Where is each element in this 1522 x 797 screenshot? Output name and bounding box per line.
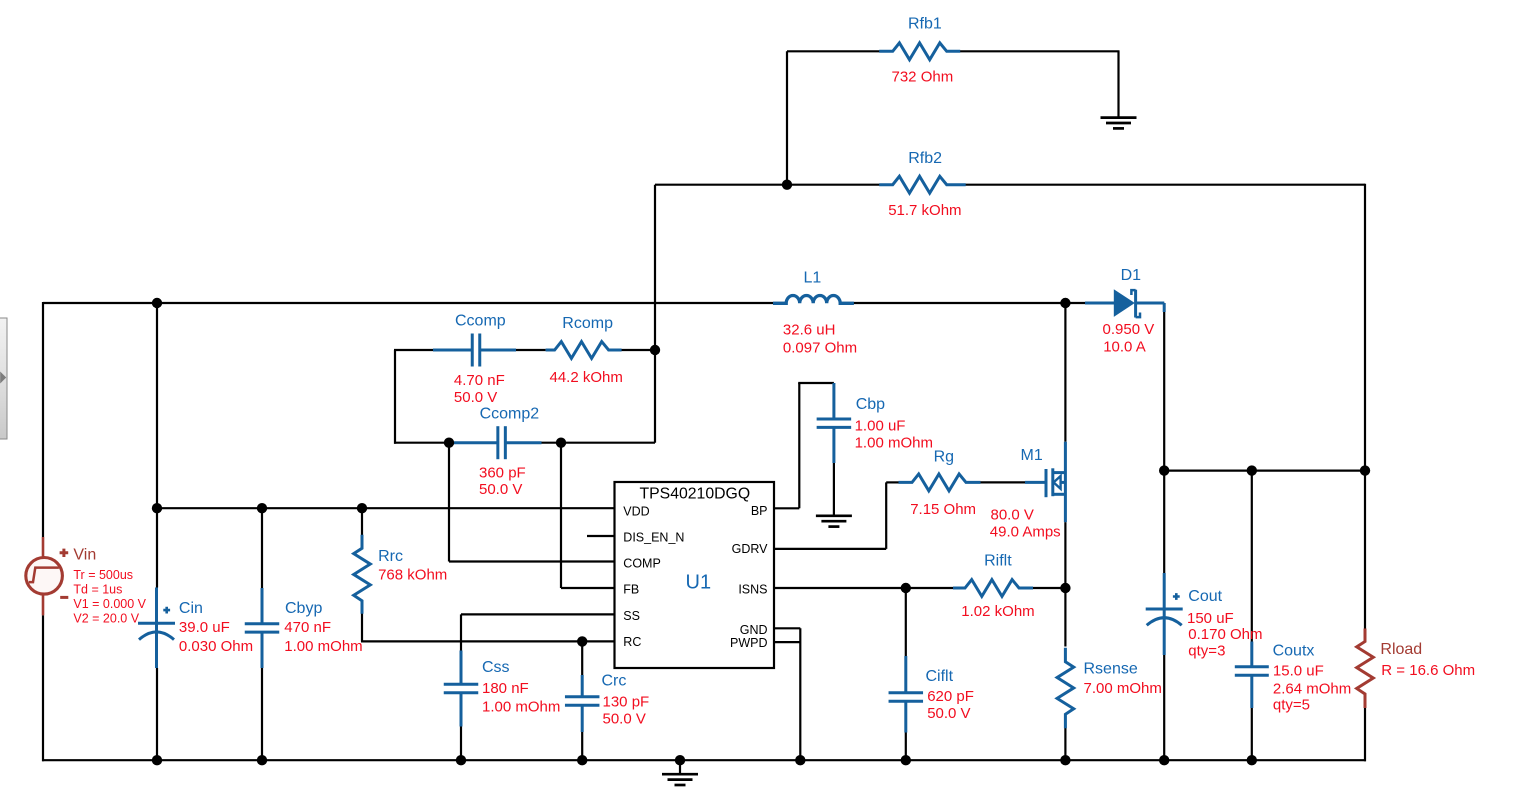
svg-text:qty=5: qty=5: [1273, 697, 1310, 714]
wire COMP row: [449, 560, 615, 562]
wire Ccomp2 row left segment: [394, 442, 450, 444]
wire GND stub: [774, 627, 800, 629]
resistor Rg: [899, 474, 981, 491]
ground bottom center: [662, 773, 698, 776]
junction node VDD rail / Cin: [152, 503, 162, 513]
wire Rfb1 riser: [786, 51, 788, 184]
wire compensation left wall: [394, 350, 396, 444]
wire Coutx branch upper: [1251, 471, 1253, 642]
wire Ccomp row left segment: [394, 349, 433, 351]
svg-text:Cbp: Cbp: [856, 396, 885, 413]
junction node Vout / Rload / feedback: [1360, 465, 1370, 475]
wire D1 anode stub: [1064, 302, 1085, 304]
svg-text:1.02 kOhm: 1.02 kOhm: [961, 603, 1034, 620]
capacitor Ccomp: [433, 334, 516, 367]
svg-text:51.7 kOhm: 51.7 kOhm: [888, 202, 961, 219]
resistor Rload: [1357, 628, 1374, 708]
wire left vertical input branch (lower): [42, 615, 44, 761]
svg-text:SS: SS: [623, 609, 640, 623]
junction junction ground rail / Ciflt: [901, 755, 911, 765]
svg-text:Ccomp: Ccomp: [455, 313, 506, 330]
svg-text:0.097 Ohm: 0.097 Ohm: [783, 340, 857, 357]
wire DIS_EN_N stub: [587, 535, 615, 537]
svg-text:0.950 V: 0.950 V: [1103, 321, 1155, 338]
svg-text:470 nF: 470 nF: [284, 619, 331, 636]
svg-text:44.2 kOhm: 44.2 kOhm: [550, 369, 623, 386]
svg-text:Rg: Rg: [934, 448, 954, 465]
wire Cbyp branch lower: [261, 668, 263, 760]
wire output drop to Vout node: [1163, 303, 1165, 471]
junction node VDD rail / Rrc: [357, 503, 367, 513]
wire Rfb2 row right segment: [960, 184, 1366, 186]
svg-text:130 pF: 130 pF: [603, 694, 650, 711]
op-amp controller U1 TPS40210DGQ box: [615, 482, 775, 668]
ground under Cbp: [816, 514, 852, 517]
wire BP riser to Cbp: [798, 383, 800, 508]
collapsed side panel handle: [0, 318, 7, 439]
wire SS row: [461, 613, 615, 615]
junction node switch SW (L1/D1/M1 drain): [1060, 298, 1070, 308]
junction junction ground rail / Cout: [1159, 755, 1169, 765]
ground under Rfb1: [1101, 116, 1137, 119]
svg-text:GND: GND: [740, 623, 768, 637]
svg-text:7.15 Ohm: 7.15 Ohm: [910, 501, 976, 518]
svg-text:V1 = 0.000 V: V1 = 0.000 V: [73, 597, 146, 611]
wire Rfb1 row left segment: [787, 50, 880, 52]
svg-text:M1: M1: [1021, 447, 1043, 464]
svg-text:Crc: Crc: [602, 673, 627, 690]
svg-text:Coutx: Coutx: [1273, 642, 1315, 659]
wire Coutx branch lower: [1251, 708, 1253, 760]
voltage source Vin: [26, 537, 69, 615]
resistor Rsense: [1057, 648, 1074, 729]
wire GDRV stub: [774, 548, 886, 550]
svg-text:150 uF: 150 uF: [1187, 610, 1234, 627]
svg-text:PWPD: PWPD: [730, 636, 768, 650]
junction node VDD rail / Cbyp: [257, 503, 267, 513]
resistor Rfb2: [879, 176, 966, 193]
svg-text:1.00 mOhm: 1.00 mOhm: [855, 434, 933, 451]
junction junction ground rail / Coutx: [1247, 755, 1257, 765]
svg-text:Ciflt: Ciflt: [926, 668, 954, 685]
wire BP stub: [774, 507, 799, 509]
svg-text:RC: RC: [623, 635, 641, 649]
svg-text:50.0 V: 50.0 V: [927, 705, 970, 722]
wire Ccomp-Rcomp middle segment: [516, 349, 546, 351]
svg-text:VDD: VDD: [623, 504, 649, 518]
svg-text:732 Ohm: 732 Ohm: [892, 69, 954, 86]
wire Vout rail: [1164, 470, 1365, 472]
wire GDRV riser to Rg: [885, 482, 887, 549]
svg-text:50.0 V: 50.0 V: [479, 481, 522, 498]
wire Rg to gate segment: [980, 481, 1026, 483]
capacitor Cbp: [817, 383, 852, 463]
wire Ccomp2 row right segment: [542, 442, 656, 444]
wire Rsense branch upper: [1064, 588, 1066, 647]
wire RC row: [361, 640, 615, 642]
junction node COMP compensation corner: [650, 345, 660, 355]
capacitor Ccomp2: [450, 426, 542, 459]
svg-text:DIS_EN_N: DIS_EN_N: [623, 531, 684, 545]
svg-text:U1: U1: [686, 571, 712, 593]
svg-text:0.170 Ohm: 0.170 Ohm: [1188, 626, 1262, 643]
svg-text:49.0 Amps: 49.0 Amps: [990, 523, 1061, 540]
junction node input rail / Cin branch: [152, 298, 162, 308]
svg-text:7.00 mOhm: 7.00 mOhm: [1084, 680, 1162, 697]
capacitor Cout (polarized): [1146, 573, 1183, 655]
wire Css branch upper: [460, 614, 462, 650]
value label Vin parameters: [73, 568, 146, 625]
resistor Riflt: [953, 580, 1033, 597]
wire Rrc branch lower to RC node: [361, 613, 363, 642]
svg-text:BP: BP: [751, 504, 768, 518]
resistor Rfb1: [879, 43, 960, 60]
wire Cout branch upper: [1163, 471, 1165, 573]
junction junction ground rail / Cin: [152, 755, 162, 765]
svg-text:Vin: Vin: [73, 547, 96, 564]
svg-text:V2 = 20.0 V: V2 = 20.0 V: [73, 611, 139, 625]
wire top rail L1 to switch node: [840, 302, 1065, 304]
wire Rfb2 row left segment: [655, 184, 880, 186]
svg-text:360 pF: 360 pF: [479, 464, 526, 481]
svg-text:180 nF: 180 nF: [482, 680, 529, 697]
wire Rload branch lower: [1364, 708, 1366, 761]
svg-text:10.0 A: 10.0 A: [1103, 338, 1146, 355]
wire ISNS row left: [774, 587, 906, 589]
svg-text:L1: L1: [804, 270, 822, 287]
wire Cbp lower to ground: [833, 463, 835, 515]
wire COMP riser: [448, 443, 450, 562]
wire Rfb1 row right segment: [960, 50, 1120, 52]
svg-text:32.6 uH: 32.6 uH: [783, 322, 836, 339]
svg-text:COMP: COMP: [623, 556, 661, 570]
junction node ISNS / Ciflt: [901, 583, 911, 593]
svg-text:Rcomp: Rcomp: [562, 315, 613, 332]
wire FB row: [561, 587, 615, 589]
wire Rfb1 ground drop: [1117, 51, 1119, 117]
wire feedback riser Rfb2-left to Ccomp2: [654, 185, 656, 443]
wire Riflt to M1 source node: [1032, 587, 1065, 589]
svg-text:50.0 V: 50.0 V: [603, 711, 646, 728]
wire Css branch lower: [460, 727, 462, 761]
wire output right riser to Rfb2: [1364, 184, 1366, 471]
svg-text:D1: D1: [1121, 267, 1142, 284]
junction node Ccomp2 right / FB: [556, 438, 566, 448]
junction node Vout / Cout: [1159, 465, 1169, 475]
wire Cbp top link: [798, 382, 834, 384]
wire Ciflt branch upper: [905, 588, 907, 656]
resistor Rrc: [354, 535, 371, 614]
junction junction ground rail / U1 GND: [795, 755, 805, 765]
svg-text:Riflt: Riflt: [984, 553, 1012, 570]
wire Ciflt branch lower: [905, 733, 907, 761]
junction junction ground rail / Css: [456, 755, 466, 765]
svg-text:Cin: Cin: [179, 600, 203, 617]
junction node Vout / Coutx: [1247, 465, 1257, 475]
svg-text:Cout: Cout: [1188, 588, 1222, 605]
svg-text:4.70 nF: 4.70 nF: [454, 372, 505, 389]
wire M1 drain from switch node: [1064, 303, 1066, 442]
svg-text:39.0 uF: 39.0 uF: [179, 619, 230, 636]
svg-text:Td = 1us: Td = 1us: [73, 582, 122, 596]
wire Crc branch upper: [581, 641, 583, 675]
svg-text:qty=3: qty=3: [1188, 642, 1225, 659]
capacitor Cin (polarized): [138, 588, 175, 669]
junction node Ccomp2 left: [444, 438, 454, 448]
svg-text:Rload: Rload: [1380, 641, 1422, 658]
wire Crc branch lower: [581, 732, 583, 760]
wire Cout branch lower: [1163, 655, 1165, 760]
wire bottom ground rail: [42, 759, 1366, 761]
wire left vertical input branch (upper): [42, 302, 44, 537]
resistor Rcomp: [546, 342, 622, 359]
wire Rload branch upper: [1364, 471, 1366, 629]
svg-text:Ccomp2: Ccomp2: [480, 406, 540, 423]
junction junction ground rail / Rsense: [1060, 755, 1070, 765]
wire Cin branch upper: [156, 303, 158, 588]
capacitor Crc: [565, 675, 600, 732]
svg-text:1.00 mOhm: 1.00 mOhm: [482, 698, 560, 715]
wire Rg left segment: [886, 481, 899, 483]
junction junction ground rail / Crc: [577, 755, 587, 765]
junction junction ground rail / Cbyp: [257, 755, 267, 765]
svg-text:Rsense: Rsense: [1084, 660, 1138, 677]
wire GND/PWPD drop: [799, 628, 801, 760]
inductor L1: [773, 296, 854, 304]
svg-text:80.0 V: 80.0 V: [991, 506, 1034, 523]
svg-text:768 kOhm: 768 kOhm: [378, 566, 447, 583]
transistor M1 (NMOS): [1025, 442, 1065, 522]
wire FB riser: [560, 443, 562, 588]
svg-text:Rfb1: Rfb1: [908, 16, 942, 33]
wire PWPD stub: [774, 641, 800, 643]
junction junction ground rail / ground symbol: [675, 755, 685, 765]
wire M1 source to ISNS node: [1064, 522, 1066, 588]
svg-text:Rfb2: Rfb2: [908, 150, 942, 167]
wire Cin branch lower: [156, 668, 158, 760]
wire D1 cathode to output corner: [1142, 302, 1165, 304]
wire Rrc branch upper: [361, 508, 363, 535]
svg-text:0.030 Ohm: 0.030 Ohm: [179, 638, 253, 655]
svg-text:Tr = 500us: Tr = 500us: [73, 568, 133, 582]
wire ISNS row right to Riflt: [906, 587, 954, 589]
wire Cbyp branch upper: [261, 508, 263, 588]
wire VDD rail: [157, 507, 615, 509]
svg-text:1.00 mOhm: 1.00 mOhm: [284, 638, 362, 655]
svg-text:50.0 V: 50.0 V: [454, 389, 497, 406]
svg-text:TPS40210DGQ: TPS40210DGQ: [639, 485, 750, 502]
wire Rsense branch lower: [1064, 728, 1066, 761]
svg-text:2.64 mOhm: 2.64 mOhm: [1273, 680, 1351, 697]
wire bottom-center ground stub: [679, 760, 681, 773]
svg-text:Cbyp: Cbyp: [285, 600, 322, 617]
capacitor Coutx: [1235, 642, 1269, 709]
junction node RC / Crc: [577, 636, 587, 646]
svg-text:R = 16.6 Ohm: R = 16.6 Ohm: [1381, 662, 1475, 679]
svg-text:FB: FB: [623, 583, 639, 597]
svg-text:Css: Css: [482, 659, 510, 676]
svg-text:15.0 uF: 15.0 uF: [1273, 663, 1324, 680]
svg-text:1.00 uF: 1.00 uF: [855, 417, 906, 434]
wire Rcomp right segment to node: [622, 349, 656, 351]
svg-text:ISNS: ISNS: [738, 583, 767, 597]
svg-text:Rrc: Rrc: [378, 548, 403, 565]
wire top input rail Vin to L1: [43, 302, 787, 304]
svg-text:GDRV: GDRV: [732, 542, 769, 556]
junction node ISNS / Rsense / M1 source: [1060, 583, 1070, 593]
junction node feedback divider (Rfb1/Rfb2): [782, 180, 792, 190]
svg-text:620 pF: 620 pF: [927, 688, 974, 705]
capacitor Css: [444, 651, 479, 727]
capacitor Ciflt: [889, 656, 924, 733]
capacitor Cbyp: [245, 588, 280, 668]
diode D1 (schottky): [1085, 289, 1164, 317]
